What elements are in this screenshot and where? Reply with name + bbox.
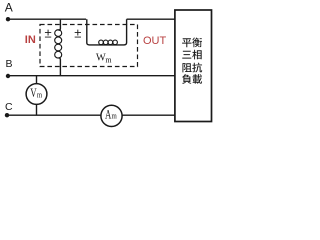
- wattmeter Wm current coil loops: [99, 40, 118, 45]
- voltmeter Vm circle: [26, 84, 47, 105]
- load box label line: 阻抗: [182, 63, 202, 73]
- svg-text:V: V: [30, 86, 36, 100]
- svg-text:m: m: [112, 110, 118, 120]
- svg-text:±: ±: [45, 26, 52, 41]
- svg-text:C: C: [5, 101, 13, 113]
- svg-text:m: m: [37, 89, 42, 99]
- node C dot: [5, 113, 9, 117]
- wire: voltmeter branch to C line: [36, 104, 38, 115]
- wattmeter Wm voltage coil loops: [55, 30, 62, 58]
- wattmeter current coil baseline with entry/exit bends and riser back up to OUT wire: [87, 19, 175, 45]
- svg-text:B: B: [6, 58, 13, 70]
- load box label line: 負載: [182, 74, 202, 84]
- wire: phase C line right of ammeter: [122, 114, 175, 116]
- wire: voltage coil stem from A line: [59, 19, 61, 30]
- svg-text:IN: IN: [25, 34, 36, 46]
- wire: voltmeter branch from B line: [36, 76, 38, 84]
- svg-text:W: W: [96, 53, 106, 64]
- wire: phase A from node A down into wattmeter current coil: [8, 19, 87, 43]
- wire: voltage coil stem down to B line: [59, 58, 61, 76]
- svg-text:A: A: [105, 107, 111, 121]
- svg-text:m: m: [105, 55, 112, 64]
- load box label line: 三相: [182, 50, 201, 60]
- node A dot: [6, 17, 10, 21]
- three-phase balanced impedance load box: [175, 10, 212, 122]
- load box label line: 平衡: [182, 38, 202, 48]
- svg-text:OUT: OUT: [143, 35, 167, 47]
- node B dot: [6, 74, 10, 78]
- wattmeter dashed boundary box: [40, 25, 138, 67]
- svg-text:±: ±: [74, 26, 81, 41]
- ammeter Am circle: [101, 105, 122, 126]
- svg-text:A: A: [5, 0, 13, 14]
- wire: phase B line: [8, 75, 175, 77]
- wire: phase C line left of ammeter: [7, 114, 101, 116]
